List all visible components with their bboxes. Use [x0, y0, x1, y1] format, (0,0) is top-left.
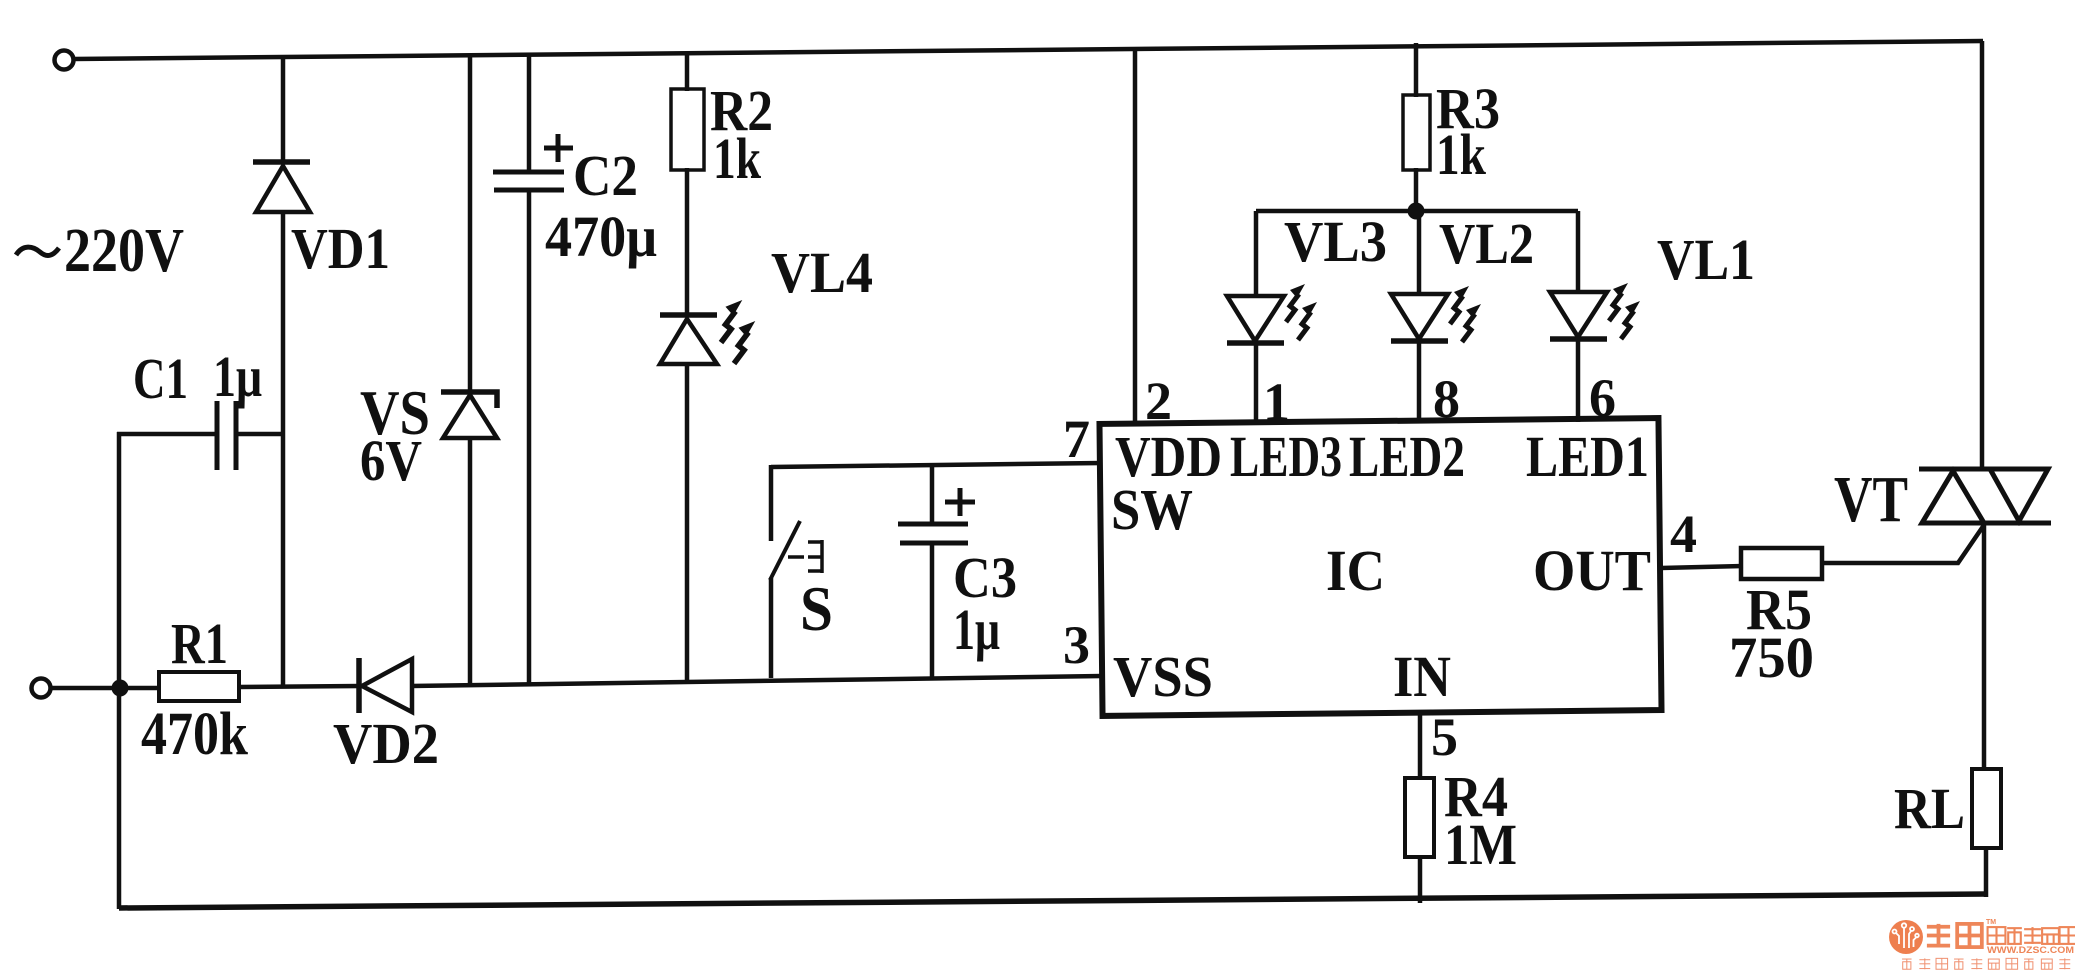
- wire C2 upper lead: [527, 55, 532, 173]
- resistor R1: [159, 672, 239, 701]
- switch S: [770, 521, 822, 580]
- wire mid VD2 to IC VSS pin3: [411, 676, 1102, 686]
- wire VL3 lower lead pin1: [1254, 342, 1259, 422]
- wire C3 lower lead: [930, 542, 935, 677]
- svg-text:7: 7: [1063, 409, 1090, 469]
- wire VD1 lower lead: [281, 212, 286, 687]
- svg-text:VD2: VD2: [333, 711, 439, 776]
- node junction dot R3/LED bus: [1408, 203, 1425, 220]
- terminal top-left: [55, 51, 74, 70]
- svg-text:1: 1: [1263, 372, 1290, 432]
- svg-text:1μ: 1μ: [213, 344, 262, 409]
- wire VS lower lead: [468, 438, 473, 685]
- svg-text:470μ: 470μ: [545, 204, 657, 269]
- wire LED bus: [1256, 209, 1578, 214]
- wire C1 left lead: [117, 432, 216, 437]
- svg-text:LED2: LED2: [1349, 424, 1465, 489]
- wire R3 upper lead: [1414, 43, 1419, 97]
- resistor R3: [1403, 95, 1430, 170]
- wire pin2 drop: [1133, 48, 1138, 422]
- svg-text:750: 750: [1729, 625, 1814, 690]
- watermark bottom chars: [1902, 958, 2070, 969]
- svg-text:S: S: [800, 574, 833, 644]
- svg-text:VT: VT: [1834, 463, 1908, 536]
- wire VL1 upper lead: [1576, 211, 1581, 292]
- svg-text:6V: 6V: [360, 428, 422, 493]
- zener VS: [441, 392, 497, 438]
- wire switch lower lead: [769, 578, 774, 678]
- wire C1 right lead: [237, 432, 285, 437]
- svg-text:VD1: VD1: [291, 216, 390, 281]
- svg-text:RL: RL: [1894, 776, 1965, 841]
- watermark mid chars: [1988, 927, 2075, 944]
- wire C2 lower lead: [527, 190, 532, 684]
- wire right drop to triac: [1980, 41, 1985, 470]
- svg-text:3: 3: [1063, 615, 1090, 675]
- svg-text:VSS: VSS: [1113, 644, 1213, 709]
- wire VL1 lower lead pin6: [1576, 338, 1581, 422]
- svg-text:VL3: VL3: [1284, 209, 1387, 274]
- LED VL4: [660, 300, 755, 364]
- svg-text:1μ: 1μ: [953, 597, 1000, 662]
- diode VD2: [359, 658, 412, 713]
- svg-text:2: 2: [1145, 371, 1172, 431]
- resistor R5: [1741, 548, 1822, 579]
- wire mid R1 to VD2: [238, 686, 360, 687]
- svg-text:LED3: LED3: [1230, 424, 1342, 489]
- wire R4 lower lead: [1418, 855, 1423, 903]
- wire VL3 upper lead: [1254, 211, 1259, 296]
- svg-text:IN: IN: [1393, 644, 1451, 709]
- wire RL lower lead: [1984, 847, 1989, 897]
- LED VL1: [1550, 283, 1640, 339]
- svg-text:6: 6: [1589, 368, 1616, 428]
- capacitor C2: [493, 134, 573, 190]
- wire VD1 upper lead: [281, 57, 286, 163]
- svg-text:LED1: LED1: [1526, 424, 1649, 489]
- resistor R2: [671, 89, 704, 170]
- wire R5 to triac gate: [1821, 525, 1984, 563]
- svg-text:OUT: OUT: [1533, 538, 1651, 603]
- wire OUT pin4 to R5: [1661, 566, 1743, 568]
- svg-text:VL4: VL4: [771, 240, 873, 305]
- capacitor C3: [898, 488, 975, 543]
- svg-text:5: 5: [1431, 707, 1458, 767]
- wire triac to RL: [1982, 523, 1987, 771]
- diode VD1: [253, 162, 310, 212]
- node junction dot left: [112, 680, 129, 697]
- svg-text:4: 4: [1670, 504, 1697, 564]
- resistor R4: [1405, 778, 1434, 857]
- svg-text:SW: SW: [1111, 477, 1193, 542]
- svg-text:8: 8: [1433, 369, 1460, 429]
- watermark big chars: [1927, 924, 1982, 947]
- svg-text:1M: 1M: [1444, 812, 1517, 877]
- watermark circle logo: [1889, 920, 1923, 954]
- wire C3 upper lead: [930, 465, 935, 525]
- IC box: [1099, 418, 1661, 716]
- svg-text:WWW.DZSC.COM: WWW.DZSC.COM: [1987, 945, 2074, 956]
- wire SW top rail pin7: [771, 463, 1102, 467]
- wire switch upper lead: [769, 465, 774, 541]
- wire left vertical: [117, 432, 122, 909]
- wire pin5 to R4: [1418, 713, 1423, 780]
- wire bottom rail: [119, 894, 1988, 908]
- wire R3 lower lead: [1414, 168, 1419, 212]
- svg-text:1k: 1k: [1436, 122, 1487, 187]
- wire R2 upper lead: [685, 53, 690, 91]
- svg-text:R1: R1: [171, 611, 228, 676]
- svg-text:TM: TM: [1986, 919, 1996, 926]
- svg-text:1k: 1k: [713, 126, 762, 191]
- wire VS upper lead: [468, 55, 473, 393]
- svg-text:VL1: VL1: [1657, 227, 1755, 292]
- svg-text:C1: C1: [133, 346, 188, 411]
- wire VL2 upper lead: [1417, 211, 1422, 294]
- svg-text:220V: 220V: [64, 217, 184, 285]
- wire VL4 lower lead: [685, 363, 690, 680]
- label ~220V: [16, 247, 59, 255]
- svg-text:C2: C2: [573, 143, 638, 208]
- wire VL2 lower lead pin8: [1417, 340, 1422, 422]
- LED VL3: [1227, 284, 1317, 343]
- wire R2 to VL4: [685, 168, 690, 316]
- wire lower terminal to R1: [51, 686, 160, 691]
- capacitor C1: [217, 401, 236, 470]
- svg-text:470k: 470k: [141, 701, 248, 768]
- wire top rail: [73, 41, 1983, 59]
- svg-text:IC: IC: [1326, 538, 1385, 603]
- LED VL2: [1391, 286, 1481, 342]
- triac VT: [1919, 469, 2051, 523]
- svg-text:VL2: VL2: [1439, 211, 1534, 276]
- terminal bottom-left: [32, 679, 51, 698]
- resistor RL: [1972, 769, 2001, 848]
